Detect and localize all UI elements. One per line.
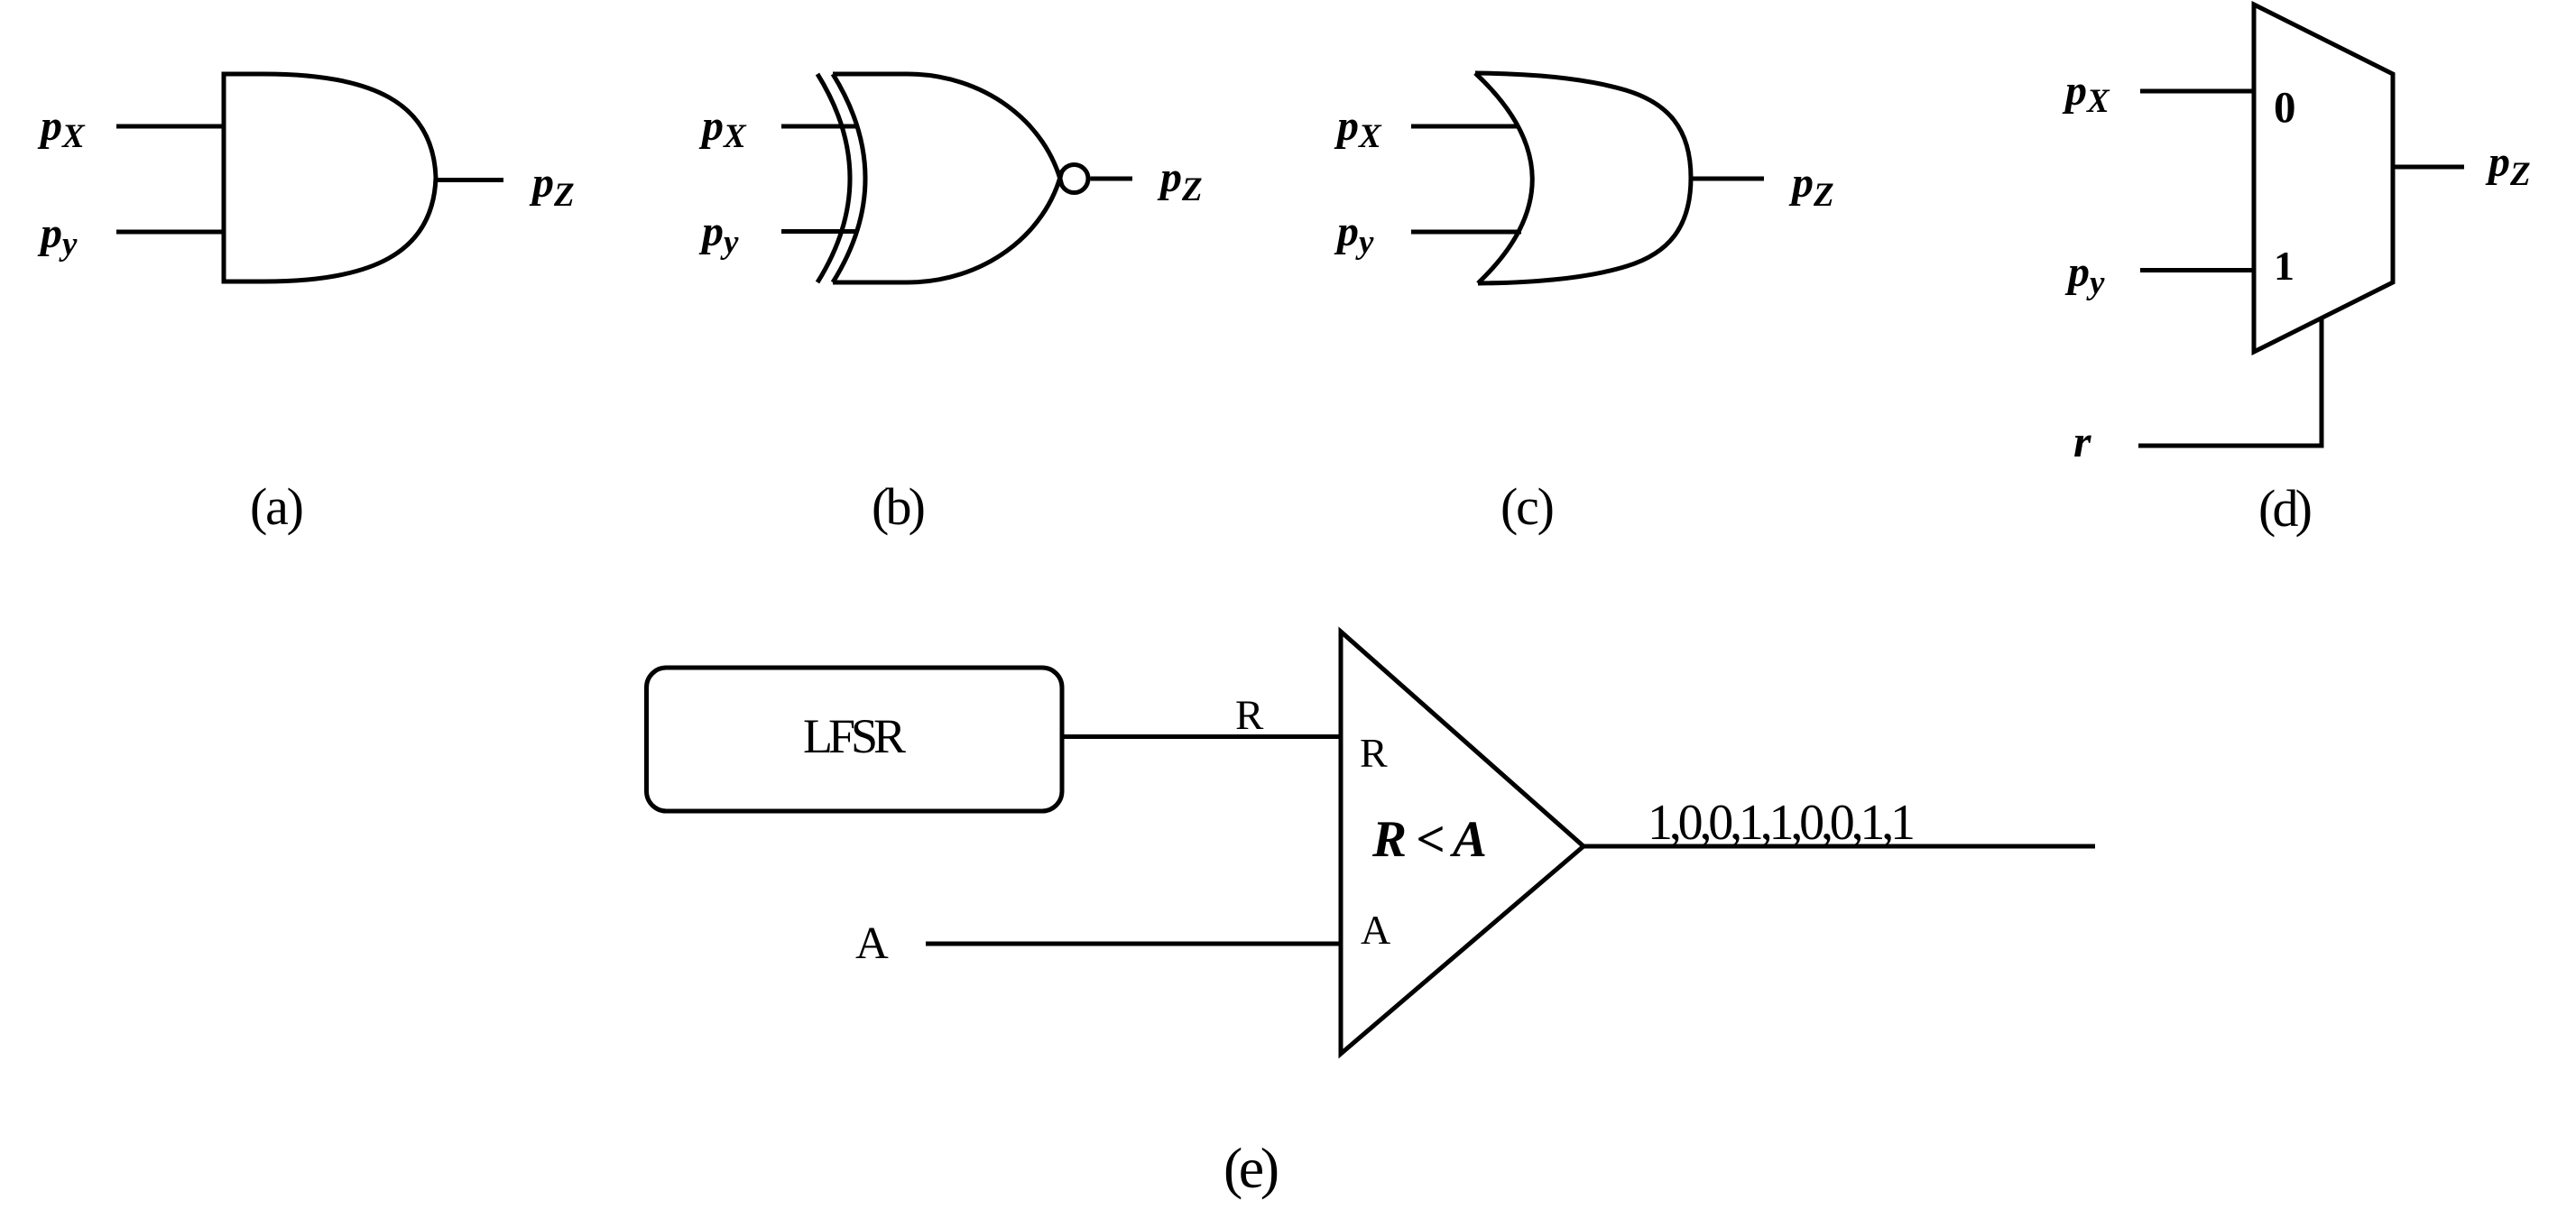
svg-text:1: 1 (2274, 243, 2294, 289)
svg-text:A: A (855, 918, 889, 969)
svg-text:r: r (2073, 416, 2091, 466)
svg-text:0: 0 (2274, 82, 2296, 132)
svg-text:LFSR: LFSR (803, 709, 906, 763)
svg-text:R < A: R < A (1371, 811, 1487, 868)
svg-text:R: R (1235, 692, 1264, 739)
svg-text:A: A (1361, 907, 1390, 953)
svg-text:(a): (a) (250, 477, 304, 536)
svg-text:(e): (e) (1223, 1136, 1279, 1200)
svg-text:(b): (b) (872, 477, 926, 536)
svg-text:1,0,0,1,1,0,0,1,1: 1,0,0,1,1,0,0,1,1 (1648, 795, 1916, 851)
svg-text:(c): (c) (1500, 477, 1555, 536)
svg-text:R: R (1360, 730, 1388, 776)
svg-text:(d): (d) (2258, 479, 2313, 538)
